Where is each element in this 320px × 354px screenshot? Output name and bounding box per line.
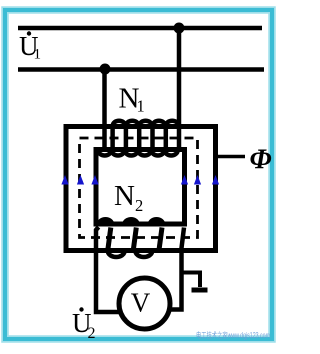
svg-text:Φ: Φ — [250, 145, 272, 176]
svg-text:2: 2 — [88, 325, 96, 342]
svg-text:N: N — [114, 180, 135, 212]
svg-text:1: 1 — [34, 47, 42, 63]
svg-text:2: 2 — [135, 196, 143, 215]
svg-text:1: 1 — [137, 97, 145, 116]
svg-text:电工技术之家www.dgjs123.com: 电工技术之家www.dgjs123.com — [196, 330, 270, 340]
svg-text:V: V — [131, 288, 151, 318]
